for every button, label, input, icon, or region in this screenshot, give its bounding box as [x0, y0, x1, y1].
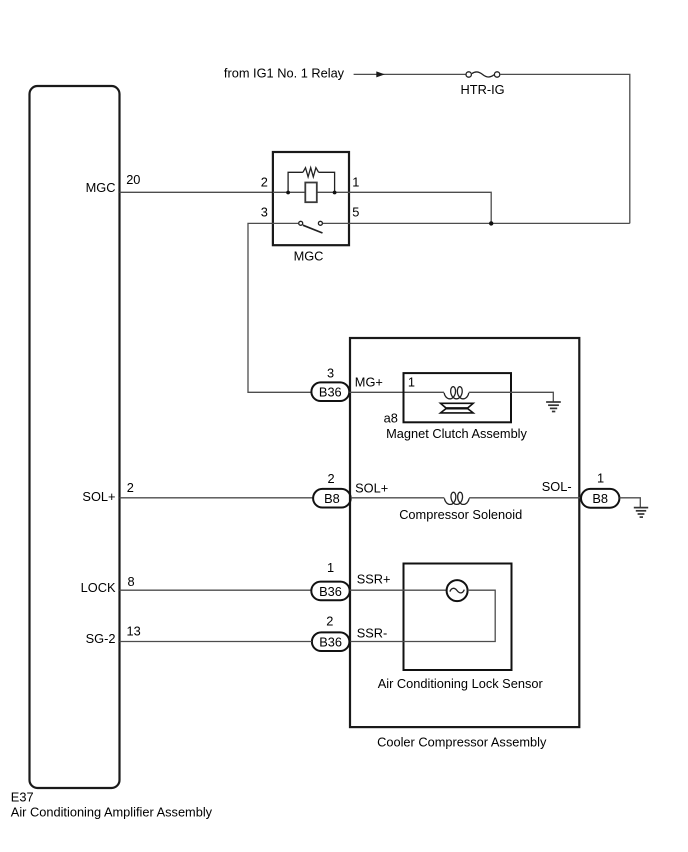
svg-text:B36: B36 [319, 385, 342, 400]
wire solenoid to B8 right [469, 497, 581, 499]
svg-text:5: 5 [352, 204, 359, 219]
wire fuse to right corner [500, 74, 630, 223]
wire MGC pin20 from E37 to relay [120, 191, 273, 193]
fuse HTR-IG [466, 72, 500, 77]
svg-text:Air Conditioning Lock Sensor: Air Conditioning Lock Sensor [378, 676, 544, 691]
ground (magnet clutch) [546, 402, 561, 412]
clutch symbol (magnet clutch) [441, 403, 474, 413]
connector B36 pin 3 (MG+) [311, 382, 349, 401]
junction node at pin1/pin5 tie [489, 221, 493, 225]
switch contact wires (relay pins 3-5) [273, 222, 298, 224]
wire MG+ into magnet clutch [349, 391, 444, 393]
svg-text:SOL+: SOL+ [82, 489, 115, 504]
resistor (relay suppressor) branch [288, 168, 335, 193]
junction node (relay pin2 side) [286, 191, 290, 195]
wire relay pin3 down to B36 [248, 223, 311, 392]
arrowhead on IG1 feed wire [376, 71, 385, 77]
inductor magnet clutch coil [444, 387, 469, 399]
wire SOL+ to solenoid [351, 497, 445, 499]
wire magnet clutch to ground [469, 392, 554, 401]
assembly box Cooler Compressor Assembly [350, 338, 579, 727]
connector E37 Air Conditioning Amplifier Assembly (body) [30, 86, 120, 788]
svg-text:Compressor Solenoid: Compressor Solenoid [399, 507, 522, 522]
svg-text:B36: B36 [319, 635, 342, 650]
svg-text:1: 1 [408, 374, 415, 389]
svg-text:SOL+: SOL+ [355, 480, 388, 495]
svg-text:E37: E37 [11, 790, 34, 805]
connector B8 pin 1 (SOL-) [581, 489, 619, 508]
svg-text:20: 20 [126, 172, 140, 187]
wire from IG1 relay to fuse [354, 73, 466, 75]
inductor Compressor Solenoid [444, 492, 469, 504]
wire sensor loop to SSR- [349, 590, 495, 641]
svg-text:MGC: MGC [294, 248, 324, 263]
svg-text:a8: a8 [384, 410, 398, 425]
svg-text:3: 3 [327, 365, 334, 380]
AC source (lock sensor) [447, 580, 468, 601]
svg-text:2: 2 [127, 480, 134, 495]
svg-text:1: 1 [327, 560, 334, 575]
svg-text:Cooler Compressor Assembly: Cooler Compressor Assembly [377, 735, 547, 750]
svg-text:13: 13 [127, 623, 141, 638]
relay MGC (body) [273, 152, 349, 245]
wire B8 to ground [619, 498, 640, 507]
svg-text:B8: B8 [592, 491, 608, 506]
component box Air Conditioning Lock Sensor [404, 564, 512, 671]
svg-text:from IG1 No. 1 Relay: from IG1 No. 1 Relay [224, 66, 345, 81]
relay coil element [305, 183, 317, 203]
svg-text:MG+: MG+ [355, 374, 383, 389]
switch contacts (relay) [299, 221, 323, 233]
wire LOCK from E37 to B36 [120, 589, 312, 591]
wire SOL+ from E37 to B8 [120, 497, 314, 499]
wire relay pin1 to node [349, 192, 491, 223]
svg-text:MGC: MGC [86, 180, 116, 195]
svg-text:HTR-IG: HTR-IG [461, 82, 505, 97]
svg-text:SG-2: SG-2 [86, 631, 116, 646]
svg-text:Air Conditioning Amplifier Ass: Air Conditioning Amplifier Assembly [11, 805, 213, 820]
wire through relay coil row [273, 191, 349, 193]
svg-text:1: 1 [597, 471, 604, 486]
svg-text:LOCK: LOCK [81, 580, 116, 595]
svg-text:SOL-: SOL- [542, 479, 572, 494]
ground (SOL-) [634, 508, 648, 517]
svg-text:3: 3 [261, 204, 268, 219]
connector B8 pin 2 (SOL+) [313, 489, 351, 508]
wire relay pin5 to HTR-IG line [349, 222, 630, 224]
wire SG-2 from E37 to B36 [120, 641, 312, 643]
connector B36 pin 1 (SSR+) [311, 582, 349, 601]
svg-text:B36: B36 [319, 584, 342, 599]
svg-text:2: 2 [328, 471, 335, 486]
svg-text:2: 2 [326, 614, 333, 629]
wire SSR+ to sensor [350, 589, 447, 591]
junction node (relay pin1 side) [333, 191, 337, 195]
connector B36 pin 2 (SSR-) [312, 632, 350, 651]
svg-text:SSR-: SSR- [357, 626, 388, 641]
svg-text:B8: B8 [324, 491, 340, 506]
svg-text:2: 2 [261, 175, 268, 190]
svg-text:SSR+: SSR+ [357, 571, 391, 586]
svg-text:Magnet Clutch Assembly: Magnet Clutch Assembly [386, 426, 527, 441]
svg-text:1: 1 [352, 175, 359, 190]
svg-text:8: 8 [128, 574, 135, 589]
component box Magnet Clutch Assembly [404, 373, 512, 422]
